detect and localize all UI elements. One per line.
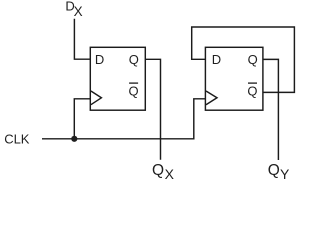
svg-text:Q: Q [268,162,280,179]
svg-text:D: D [212,52,221,67]
svg-text:Q: Q [129,83,139,98]
junction dot on CLK [71,136,77,142]
node QX label [152,162,175,182]
wire Q1 to QX [145,59,160,160]
pin label Qbar of U2 [247,83,257,98]
svg-text:Q: Q [129,52,139,67]
wire Q2 to QY [263,59,279,160]
svg-text:Q: Q [248,52,258,67]
svg-text:X: X [74,4,83,19]
clock triangle of U2 [206,91,217,105]
svg-text:Y: Y [280,166,290,182]
node QY label [268,162,290,182]
wire CLK branch to U1 [74,99,90,139]
pin label Qbar of U1 [129,83,139,98]
svg-text:Q: Q [247,83,257,98]
wire DX lead [74,19,90,60]
flip-flop U1 box [90,47,145,110]
wire feedback Qbar2 to D2 [192,27,295,92]
clock triangle of U1 [91,91,102,105]
wire CLK main [42,99,205,139]
node DX label [65,0,82,19]
svg-text:CLK: CLK [4,131,30,146]
svg-text:D: D [95,52,104,67]
svg-text:Q: Q [152,162,164,179]
svg-text:X: X [165,166,175,182]
flip-flop U2 box [205,47,263,110]
